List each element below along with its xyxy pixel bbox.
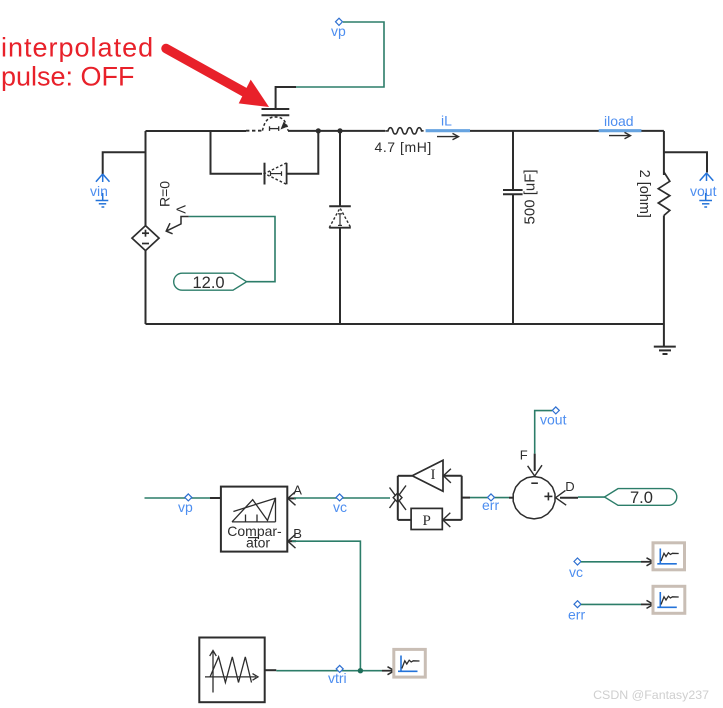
- wire vout tap: [664, 152, 707, 172]
- node vc (scope feed): [569, 558, 583, 580]
- svg-text:vp: vp: [178, 499, 193, 515]
- voltmeter arrow V of source: [166, 217, 189, 234]
- wire left rail upper: [145, 131, 147, 226]
- wire trigen output (black then teal): [265, 669, 277, 671]
- wire PI input from err (black then teal): [462, 497, 470, 499]
- switch Q1 (IGBT, off-state dashed): [246, 109, 289, 131]
- wire top rail left of switch: [146, 130, 247, 132]
- scope3 (err scope): [653, 586, 685, 613]
- svg-text:B: B: [293, 526, 302, 541]
- PI output branch X junction: [390, 486, 407, 511]
- junction dot node1: [316, 128, 321, 133]
- wire top rail right of switch: [288, 130, 385, 132]
- summing junction circle: [513, 477, 555, 519]
- diode D2 freewheeling (points up, dashed off-state): [329, 206, 351, 227]
- junction dot node2: [337, 128, 342, 133]
- triangle generator block box: [199, 638, 264, 703]
- annotation arrow red: [166, 49, 269, 108]
- wire cap node to load corner: [513, 130, 664, 132]
- node err (scope feed): [568, 601, 585, 623]
- wire comparator output to left (teal): [145, 497, 211, 499]
- svg-text:vin: vin: [90, 183, 108, 199]
- svg-text:D: D: [565, 479, 574, 494]
- wire 12.0 to voltmeter (teal): [189, 217, 275, 282]
- inductor L1: [385, 128, 423, 134]
- wire D1 to node1: [287, 131, 319, 174]
- junction dot vtri riser (teal): [358, 668, 363, 673]
- diode D1 label I (rotated): [271, 171, 282, 176]
- arrow into D: [556, 490, 567, 505]
- wire vin tap: [103, 152, 146, 174]
- wire A to vc to PI out (teal): [294, 497, 390, 499]
- svg-text:F: F: [520, 447, 528, 462]
- svg-text:vtri: vtri: [328, 670, 347, 686]
- wire vout to F (teal): [535, 411, 552, 454]
- wire err to scope3 (teal then black): [581, 603, 641, 605]
- wire integrator to right vertical: [443, 475, 462, 477]
- wire to ground: [663, 324, 665, 347]
- node vp (comparator out): [178, 494, 193, 515]
- summer input F wire (black): [534, 454, 536, 471]
- svg-text:vc: vc: [333, 499, 347, 515]
- resistor R1 zigzag: [658, 172, 670, 216]
- bottom rail: [146, 323, 664, 325]
- summer minus sign: [531, 482, 538, 484]
- svg-text:CSDN @Fantasy237: CSDN @Fantasy237: [593, 688, 709, 702]
- svg-text:2 [ohm]: 2 [ohm]: [636, 170, 652, 218]
- antiparallel diode D1 loop wire: [211, 131, 263, 174]
- svg-text:ator: ator: [246, 535, 270, 551]
- probe vin arrow (blue): [96, 174, 110, 182]
- PI loop left vertical: [397, 476, 399, 520]
- arrow into scope1 (black): [382, 667, 395, 675]
- wire gate stub (black): [276, 87, 296, 109]
- comparator input A arrow: [288, 492, 297, 506]
- svg-text:R=0: R=0: [157, 181, 173, 207]
- svg-text:I: I: [431, 467, 436, 483]
- wire D to 7.0 (teal): [578, 496, 605, 498]
- wire left rail lower: [145, 251, 147, 324]
- svg-text:12.0: 12.0: [193, 274, 225, 292]
- wire B from vtri riser (teal): [292, 541, 360, 671]
- wire comparator output stub (black): [210, 497, 221, 499]
- ground (power): [654, 347, 676, 354]
- wire D2 to bottom rail: [339, 228, 341, 324]
- svg-text:iload: iload: [604, 113, 634, 129]
- integrator triangle: [412, 460, 443, 491]
- svg-text:500 [uF]: 500 [uF]: [522, 169, 539, 224]
- summer plus sign: [544, 492, 552, 500]
- svg-text:iL: iL: [441, 113, 452, 129]
- wire err to summer (black): [509, 497, 513, 499]
- svg-text:pulse: OFF: pulse: OFF: [1, 62, 135, 92]
- node vout (control): [540, 407, 567, 427]
- constant block 12.0 (tag): [174, 273, 247, 292]
- svg-text:P: P: [423, 513, 431, 529]
- PI loop top wire to integrator: [398, 475, 412, 477]
- ground vin (blue): [96, 193, 109, 207]
- ammeter iload blue segment: [599, 129, 642, 132]
- arrow iload direction: [609, 132, 631, 138]
- svg-text:vp: vp: [331, 23, 346, 39]
- node err: [482, 494, 499, 513]
- arrow iL direction: [437, 133, 459, 139]
- svg-text:vout: vout: [540, 411, 567, 427]
- scope2 (vc scope): [653, 543, 685, 570]
- wire C1 to bottom rail: [512, 195, 514, 324]
- arrow into F: [528, 465, 542, 476]
- scope1 (vtri scope): [394, 649, 426, 677]
- capacitor C1 plates: [503, 190, 523, 194]
- svg-text:interpolated: interpolated: [1, 33, 154, 63]
- switch Q1 state label I (rotated): [270, 126, 279, 131]
- wire node2 down to D2: [339, 131, 341, 206]
- comparator U1 box: [221, 487, 287, 552]
- svg-text:A: A: [293, 482, 302, 497]
- diode D2 label I: [338, 214, 342, 226]
- arrow into P: [443, 513, 451, 527]
- ground vout (blue): [699, 193, 712, 207]
- wire load corner down to resistor: [663, 131, 665, 175]
- PI loop bottom wires: [398, 519, 411, 521]
- svg-text:vc: vc: [569, 564, 583, 580]
- annotation text red: [1, 33, 154, 92]
- diode D1 (points left, dashed off-state): [265, 163, 287, 185]
- svg-text:V: V: [174, 205, 189, 214]
- svg-text:err: err: [482, 497, 499, 513]
- wire resistor to bottom rail: [663, 216, 665, 325]
- source V1 (controlled voltage source diamond): [132, 226, 159, 251]
- svg-text:vout: vout: [690, 183, 717, 199]
- svg-text:err: err: [568, 607, 585, 623]
- capacitor C1 wires: [512, 131, 514, 189]
- ammeter iL blue segment: [426, 129, 470, 132]
- node vc: [333, 494, 347, 515]
- comparator input B arrow: [288, 534, 297, 548]
- node vp (top): [331, 18, 346, 39]
- PI loop right vertical: [461, 476, 463, 520]
- wire vp to gate (teal): [296, 22, 384, 87]
- node vtri: [328, 665, 347, 686]
- wire vc to scope2 (teal then black): [581, 561, 641, 563]
- summer input D wire (black): [560, 497, 578, 499]
- constant block 7.0 (tag): [605, 489, 677, 507]
- P box: [411, 508, 442, 529]
- probe vout arrow (blue): [700, 173, 714, 181]
- wire L to cap node (with iL ammeter blue): [428, 130, 513, 132]
- svg-text:4.7 [mH]: 4.7 [mH]: [375, 139, 432, 155]
- triangle generator icon: [205, 651, 258, 693]
- arrow into integrator: [443, 469, 451, 483]
- comparator U1 icon: [232, 498, 276, 522]
- svg-text:7.0: 7.0: [630, 489, 653, 507]
